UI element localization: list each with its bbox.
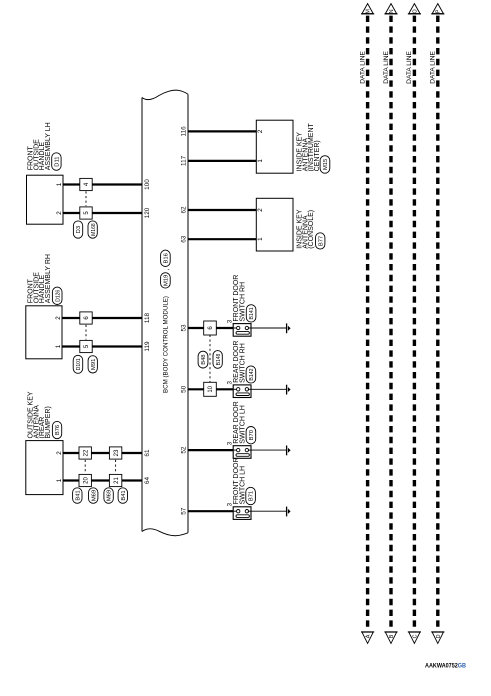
svg-text:2: 2 (56, 451, 63, 455)
svg-text:10: 10 (208, 385, 214, 392)
svg-text:M: M (366, 9, 372, 14)
connector oval B41 (73, 488, 82, 504)
svg-text:53: 53 (181, 324, 188, 332)
connector oval M168 (88, 221, 97, 238)
svg-text:ASSEMBLY RH: ASSEMBLY RH (45, 254, 52, 303)
pin 2 label (handle LH) (56, 211, 63, 215)
BCM pin 62 label (181, 206, 188, 214)
ground (front door switch LH) (287, 507, 291, 517)
data line 2 top continuation arrow (384, 4, 397, 14)
pin 1 label (outside key antenna) (56, 478, 63, 482)
svg-text:2: 2 (55, 316, 62, 320)
pin 3 label (front door switch LH) (226, 502, 233, 506)
front door switch RH symbol (233, 324, 251, 337)
BCM pin 50 label (181, 385, 188, 393)
svg-text:52: 52 (181, 446, 188, 454)
svg-text:SWITCH RH: SWITCH RH (240, 282, 247, 322)
pin 3 label (rear door switch RH) (226, 381, 233, 385)
splice connector box 6 (80, 312, 92, 324)
svg-text:ASSEMBLY LH: ASSEMBLY LH (45, 122, 52, 170)
pin 2 label (outside key antenna) (56, 451, 63, 455)
svg-text:M69: M69 (107, 490, 113, 501)
rear door switch LH symbol (233, 446, 251, 459)
svg-text:M15: M15 (323, 159, 329, 170)
svg-text:C: C (413, 634, 419, 638)
wire: BCM 52 to rear door switch LH (188, 449, 233, 451)
svg-text:100: 100 (144, 179, 151, 190)
svg-text:B71: B71 (249, 491, 255, 501)
splice connector box 22 (79, 447, 91, 459)
BCM pin 64 label (144, 477, 151, 485)
pin 3 label (front door switch RH) (226, 319, 233, 323)
BCM pin 61 label (144, 449, 151, 457)
splice connector box 20 (79, 474, 91, 486)
connector oval B148 (213, 351, 222, 369)
rear door switch RH symbol (233, 385, 251, 398)
connector oval B141 (246, 305, 256, 322)
svg-text:1: 1 (56, 182, 63, 186)
wire: BCM 117 to instr antenna pin1 (188, 160, 256, 162)
wire: handle RH pin1 to BCM 119 (62, 345, 142, 347)
svg-text:1: 1 (257, 159, 264, 163)
label: REAR DOOR SWITCH LH (233, 401, 246, 443)
splice connector box 10 (204, 382, 217, 396)
connector block: FRONT OUTSIDE HANDLE ASSEMBLY LH (27, 122, 64, 224)
wire: BCM 50 to rear door switch RH (188, 388, 233, 390)
svg-text:2: 2 (257, 129, 264, 133)
svg-text:118: 118 (144, 312, 151, 323)
ground (rear door switch RH) (287, 385, 291, 395)
BCM pin 117 label (181, 155, 188, 166)
svg-text:SWITCH RH: SWITCH RH (240, 343, 247, 383)
pin 3 label (rear door switch LH) (226, 441, 233, 445)
label: FRONT DOOR SWITCH RH (233, 275, 246, 322)
pin 1 label (console antenna) (257, 237, 264, 241)
pin 1 label (handle LH) (56, 182, 63, 186)
wire: handle LH pin1 to BCM 100 (63, 183, 142, 185)
DATA LINE label 2 (383, 50, 390, 83)
svg-text:D3: D3 (76, 226, 82, 233)
ground (front door switch RH) (287, 323, 291, 333)
connector oval D11 (52, 153, 61, 171)
pin 2 label (console antenna) (257, 208, 264, 212)
svg-text:2: 2 (56, 211, 63, 215)
svg-text:119: 119 (144, 341, 151, 352)
BCM pin 57 label (181, 507, 188, 515)
data line 1 bottom continuation arrow (361, 632, 374, 644)
wire: front door switch RH to ground (251, 327, 287, 329)
BCM (Body Control Module) outline strip (142, 90, 188, 536)
comma between connector ovals (164, 269, 171, 271)
dotted link between boxes 6 and 10 (209, 335, 211, 383)
connector oval M15 (320, 156, 330, 174)
wire: handle RH pin2 to BCM 118 (62, 317, 142, 319)
wire: BCM 62 to console antenna pin2 (188, 209, 256, 211)
wire: rear door switch LH to ground (251, 449, 287, 451)
connector oval D101 (73, 355, 83, 373)
connector oval D126 (52, 287, 62, 304)
connector block: OUTSIDE KEY ANTENNA (REAR BUMPER) (26, 391, 63, 494)
BCM pin 53 label (181, 324, 188, 332)
svg-text:M19: M19 (164, 275, 170, 286)
connector oval M69 (89, 488, 98, 504)
svg-text:N: N (389, 9, 395, 13)
BCM pin 120 label (144, 207, 151, 218)
BCM pin 116 label (181, 126, 188, 137)
BCM pin 63 label (181, 235, 188, 243)
CAN data line 2 (389, 16, 392, 630)
svg-text:AAKWA0752GB: AAKWA0752GB (425, 663, 466, 670)
BCM connector oval M19 (161, 273, 171, 288)
svg-text:D: D (436, 634, 442, 638)
connector oval B41 (second) (118, 488, 127, 504)
svg-text:DATA LINE: DATA LINE (383, 50, 390, 83)
data line 4 top continuation arrow (431, 4, 444, 14)
svg-text:B70: B70 (249, 430, 255, 440)
svg-text:22: 22 (83, 449, 89, 456)
BCM module label text (163, 296, 170, 393)
svg-text:B77: B77 (318, 236, 324, 246)
BCM pin 52 label (181, 446, 188, 454)
svg-text:64: 64 (144, 477, 151, 485)
pin 2 label (handle RH) (55, 316, 62, 320)
svg-text:O: O (412, 9, 418, 13)
svg-text:B41: B41 (121, 490, 127, 500)
wire: BCM 116 to instr antenna pin2 (188, 130, 256, 132)
connector block: INSIDE KEY ANTENNA (CONSOLE) (256, 198, 315, 251)
svg-text:1: 1 (257, 237, 264, 241)
wire: BCM 57 to front door switch LH (188, 510, 233, 512)
svg-text:B41: B41 (75, 490, 81, 500)
svg-text:B76: B76 (55, 425, 61, 435)
wire: antenna pin1 to BCM 64 (63, 479, 142, 481)
CAN data line 3 (413, 16, 416, 630)
svg-text:M168: M168 (91, 223, 97, 236)
svg-text:D101: D101 (76, 358, 82, 370)
connector oval B142 (246, 366, 256, 383)
svg-text:120: 120 (144, 207, 151, 218)
label: REAR DOOR SWITCH RH (233, 340, 246, 382)
diagram reference number AAKWA0752GB (425, 663, 466, 670)
connector oval M91 (88, 356, 97, 373)
DATA LINE label 1 (359, 50, 366, 83)
splice connector box 5 (80, 207, 92, 219)
dotted link between boxes 22 and 20 (84, 460, 86, 474)
svg-text:62: 62 (181, 206, 188, 214)
svg-text:1: 1 (56, 478, 63, 482)
splice connector box 4 (80, 178, 92, 190)
connector oval B76 (52, 421, 61, 438)
data line 3 bottom continuation arrow (408, 632, 421, 644)
wire: rear door switch RH to ground (251, 388, 287, 390)
connector oval B48 (198, 351, 208, 368)
connector oval M69 (second) (104, 488, 113, 504)
svg-text:57: 57 (181, 507, 188, 515)
svg-text:116: 116 (181, 126, 188, 137)
label: FRONT DOOR SWITCH LH (233, 457, 246, 504)
BCM pin 118 label (144, 312, 151, 323)
splice connector box 21 (109, 474, 121, 486)
connector oval D3 (73, 221, 82, 238)
DATA LINE label 3 (406, 50, 413, 83)
svg-text:D11: D11 (55, 156, 61, 166)
svg-text:B: B (389, 634, 395, 638)
wire: BCM 63 to console antenna pin1 (188, 238, 256, 240)
connector block: FRONT OUTSIDE HANDLE ASSEMBLY RH (26, 254, 62, 359)
svg-text:B141: B141 (249, 307, 255, 319)
svg-text:B48: B48 (201, 354, 207, 364)
front door switch LH symbol (233, 507, 251, 520)
connector oval B70 (246, 427, 256, 444)
svg-text:21: 21 (114, 477, 120, 484)
dotted link between boxes 4 and 5 (85, 191, 87, 206)
CAN data line 1 (366, 16, 369, 630)
svg-text:M91: M91 (91, 359, 97, 370)
connector oval B71 (246, 487, 256, 504)
svg-text:DATA LINE: DATA LINE (406, 50, 413, 83)
svg-text:117: 117 (181, 155, 188, 166)
svg-text:20: 20 (83, 477, 89, 484)
svg-text:DATA LINE: DATA LINE (430, 50, 437, 83)
svg-text:DATA LINE: DATA LINE (359, 50, 366, 83)
dotted link between boxes 6 and 5 (85, 325, 87, 340)
svg-text:2: 2 (257, 208, 264, 212)
svg-text:23: 23 (114, 449, 120, 456)
svg-text:BCM (BODY CONTROL MODULE): BCM (BODY CONTROL MODULE) (163, 296, 170, 393)
connector block: INSIDE KEY ANTENNA (INSTRUMENT CENTER) (256, 120, 321, 173)
splice connector box 6 (door switch harness) (204, 321, 217, 335)
BCM pin 100 label (144, 179, 151, 190)
data line 4 bottom continuation arrow (431, 632, 444, 644)
splice connector box 23 (109, 447, 121, 459)
svg-text:B148: B148 (216, 353, 222, 365)
pin 2 label (instr antenna) (257, 129, 264, 133)
svg-text:SWITCH LH: SWITCH LH (240, 405, 247, 444)
svg-text:63: 63 (181, 235, 188, 243)
connector oval B77 (316, 233, 325, 249)
svg-text:B16: B16 (164, 253, 170, 263)
svg-text:D126: D126 (55, 290, 61, 302)
ground (rear door switch LH) (287, 446, 291, 456)
BCM pin 119 label (144, 341, 151, 352)
svg-text:1: 1 (55, 344, 62, 348)
svg-text:(CONSOLE): (CONSOLE) (308, 210, 315, 249)
svg-text:M69: M69 (91, 490, 97, 501)
pin 1 label (instr antenna) (257, 159, 264, 163)
splice connector box 5 (80, 340, 92, 352)
wire: front door switch LH to ground (251, 510, 287, 512)
CAN data line 4 (436, 16, 439, 630)
BCM connector oval B16 (161, 250, 171, 266)
data line 2 bottom continuation arrow (384, 632, 397, 644)
svg-text:P: P (436, 9, 442, 13)
DATA LINE label 4 (430, 50, 437, 83)
svg-text:B142: B142 (249, 368, 255, 380)
wire: BCM 53 to front door switch RH (188, 327, 233, 329)
wire: handle LH pin2 to BCM 120 (63, 212, 142, 214)
svg-text:61: 61 (144, 449, 151, 457)
wire: antenna pin2 to BCM 61 (63, 452, 142, 454)
svg-text:50: 50 (181, 385, 188, 393)
svg-text:,: , (164, 269, 171, 271)
svg-text:BUMPER): BUMPER) (45, 406, 52, 438)
data line 3 top continuation arrow (408, 4, 421, 14)
svg-text:A: A (366, 634, 372, 638)
pin 1 label (handle RH) (55, 344, 62, 348)
data line 1 top continuation arrow (361, 4, 374, 14)
dotted link between boxes 23 and 21 (115, 460, 117, 474)
